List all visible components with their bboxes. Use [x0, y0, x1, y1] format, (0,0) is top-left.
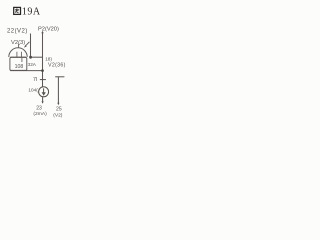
svg-text:18): 18)	[45, 57, 52, 62]
svg-text:22(V2): 22(V2)	[7, 29, 28, 35]
svg-text:(2mA): (2mA)	[33, 111, 47, 117]
junction dot bottom	[41, 69, 44, 72]
transistor top lead	[18, 44, 20, 48]
transistor inner electrodes	[10, 52, 26, 62]
junction dot	[29, 56, 32, 59]
svg-text:(V2): (V2)	[53, 112, 63, 118]
current tick crossbar	[40, 79, 46, 81]
arrowhead up on P2 wire	[41, 31, 43, 34]
node 36 T-bar	[55, 76, 64, 78]
svg-text:19A: 19A	[22, 6, 41, 17]
current source I104 circle	[39, 87, 49, 97]
current source arrow	[43, 88, 45, 92]
arrowhead down bottom	[42, 101, 44, 103]
svg-text:7I: 7I	[33, 77, 37, 83]
svg-text:104(: 104(	[28, 88, 38, 93]
svg-text:25: 25	[56, 107, 62, 113]
title 图19A	[14, 6, 41, 17]
svg-text:P2(V20): P2(V20)	[38, 26, 59, 32]
transistor body box	[10, 57, 27, 70]
svg-text:V2(36): V2(36)	[48, 62, 66, 68]
svg-text:23: 23	[36, 105, 42, 111]
svg-text:108: 108	[15, 64, 24, 70]
svg-text:V2(3): V2(3)	[11, 40, 25, 46]
wire emitter bottom horizontal	[10, 70, 43, 72]
wire 36 vertical	[57, 77, 59, 104]
wire below current source	[42, 97, 44, 102]
arrowhead down wire36	[57, 103, 59, 105]
wire P2 vertical	[42, 32, 44, 87]
wire collector horizontal	[31, 56, 44, 58]
wire node3 vertical	[30, 34, 32, 58]
transistor Q 108 envelope dome	[9, 48, 27, 57]
svg-text:32A: 32A	[28, 62, 37, 67]
leader arrow to transistor	[24, 42, 29, 48]
